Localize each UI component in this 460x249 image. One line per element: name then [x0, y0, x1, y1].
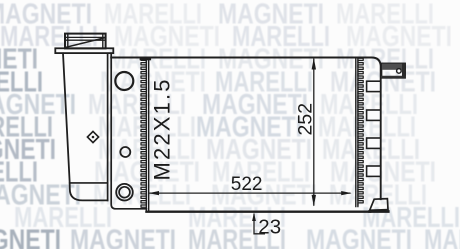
svg-text:23: 23 — [258, 215, 281, 238]
small hole circle — [120, 147, 130, 157]
right fin band teeth — [358, 58, 363, 205]
fitting hole — [397, 69, 402, 74]
left tank step line — [70, 182, 108, 184]
fitting top shade — [382, 64, 405, 70]
header joint line — [111, 53, 146, 209]
outlet fitting tab — [382, 63, 406, 77]
rivet diamond — [87, 131, 98, 142]
fitting right bar — [402, 64, 405, 78]
filler neck circle — [115, 72, 133, 90]
svg-text:522: 522 — [231, 174, 263, 195]
mounting clip 4 — [367, 166, 381, 176]
dim texts — [149, 80, 316, 239]
cap right thick edge — [102, 34, 104, 49]
bottom baseline — [146, 211, 370, 213]
left fin band double line — [145, 58, 147, 211]
mounting clip 1 — [367, 81, 381, 91]
arrow down 252 — [312, 195, 316, 207]
dim 252 line — [313, 59, 315, 206]
drain boss outer circle — [116, 184, 133, 201]
arrow right 522 — [341, 191, 351, 195]
cap horizontal line 1 — [65, 36, 106, 38]
left band top cap — [141, 58, 150, 61]
radiator cap body — [65, 34, 106, 49]
cap left thick edge — [67, 34, 69, 49]
arrow up 252 — [312, 58, 316, 70]
right fin band double line — [355, 58, 357, 207]
cap flange plate — [55, 48, 113, 53]
drain boss inner circle — [119, 187, 130, 198]
cap diagonal — [66, 38, 104, 47]
arrow up 23 — [252, 213, 256, 221]
left fin band teeth — [141, 58, 146, 209]
dim 23 leader — [254, 214, 265, 234]
svg-text:M22X1.5: M22X1.5 — [149, 80, 174, 181]
dim 522 line — [150, 192, 351, 194]
core top line and right tank edge — [111, 58, 381, 200]
arrow left 522 — [149, 191, 159, 195]
left tank outline — [63, 53, 108, 200]
svg-text:MAGNETI: MAGNETI — [0, 225, 61, 249]
svg-text:252: 252 — [295, 103, 317, 136]
svg-text:MAGNETI: MAGNETI — [306, 225, 412, 249]
cap horizontal line 2 — [65, 39, 106, 41]
mounting clip 3 — [367, 138, 381, 148]
right foot bracket — [370, 199, 388, 211]
svg-text:MAGNETI: MAGNETI — [70, 225, 176, 249]
rivet diamond dot — [92, 136, 95, 139]
foot thick base — [370, 210, 389, 213]
left tank right edge — [107, 53, 109, 200]
mounting clip 2 — [367, 110, 381, 120]
svg-text:MARELLI: MARELLI — [424, 225, 460, 249]
